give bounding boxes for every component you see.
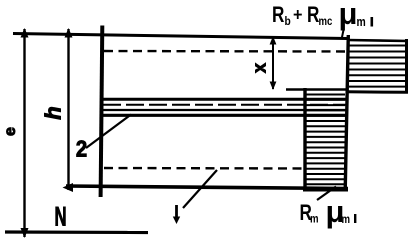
lower stress block hatch lines xyxy=(307,95,346,185)
upper stress block right edge xyxy=(405,39,408,93)
arrow left, bottom of h line xyxy=(63,183,74,192)
middle solid line C xyxy=(103,109,347,111)
arrow up, top of x line xyxy=(270,36,277,45)
top stress formula Rb + Rmc mu m1 xyxy=(272,0,373,31)
svg-text:h: h xyxy=(41,106,66,119)
top edge line of section with dimension extension xyxy=(13,34,347,39)
svg-text:N: N xyxy=(54,201,66,231)
lower stress block left edge xyxy=(303,88,306,190)
svg-text:m: m xyxy=(342,213,351,226)
middle solid line D xyxy=(102,114,347,117)
upper stress block bottom edge xyxy=(347,90,408,94)
upper dashed line (mesh level) xyxy=(104,50,346,53)
bottom stress formula Rm mu m1 xyxy=(300,194,357,229)
arrow up, top of h line xyxy=(65,28,73,38)
dimension line e (vertical, far left) xyxy=(23,29,25,237)
svg-text:x: x xyxy=(250,63,270,73)
svg-text:+: + xyxy=(293,5,302,25)
arrow down, bottom of e line xyxy=(21,228,29,238)
lower stress block top edge xyxy=(286,88,347,90)
arrow down, bottom of x line xyxy=(270,82,277,91)
svg-text:b: b xyxy=(285,15,291,28)
svg-text:m: m xyxy=(357,15,366,29)
mu tail stroke crossing top line xyxy=(342,30,344,40)
upper stress block hatch lines xyxy=(349,46,405,87)
dimension line h (vertical) xyxy=(67,29,69,190)
middle broken axis line B xyxy=(103,104,347,106)
x depth dimension line xyxy=(272,37,274,89)
svg-text:mc: mc xyxy=(319,15,333,28)
arrow up, top of e line xyxy=(21,28,29,38)
label 1 (arrow-like stroke) xyxy=(175,205,178,218)
lower stress block bottom edge xyxy=(303,189,348,192)
lower dashed line (mesh level) xyxy=(104,167,306,170)
svg-text:m: m xyxy=(310,213,319,226)
leader line for label 2 xyxy=(86,115,131,149)
leader line for label 1 xyxy=(183,170,217,208)
svg-text:e: e xyxy=(2,127,19,136)
bottom edge line of section with dimension extension xyxy=(66,186,348,189)
upper stress block top edge xyxy=(347,40,408,41)
datum line at bottom left xyxy=(5,230,148,234)
svg-text:2: 2 xyxy=(76,135,87,162)
middle solid line A xyxy=(102,98,347,101)
section right edge xyxy=(345,35,348,191)
svg-text:R: R xyxy=(272,3,284,28)
section left edge xyxy=(101,26,103,198)
leader line for bottom stress label xyxy=(317,187,336,201)
svg-text:R: R xyxy=(307,3,319,28)
svg-text:μ: μ xyxy=(339,0,358,31)
